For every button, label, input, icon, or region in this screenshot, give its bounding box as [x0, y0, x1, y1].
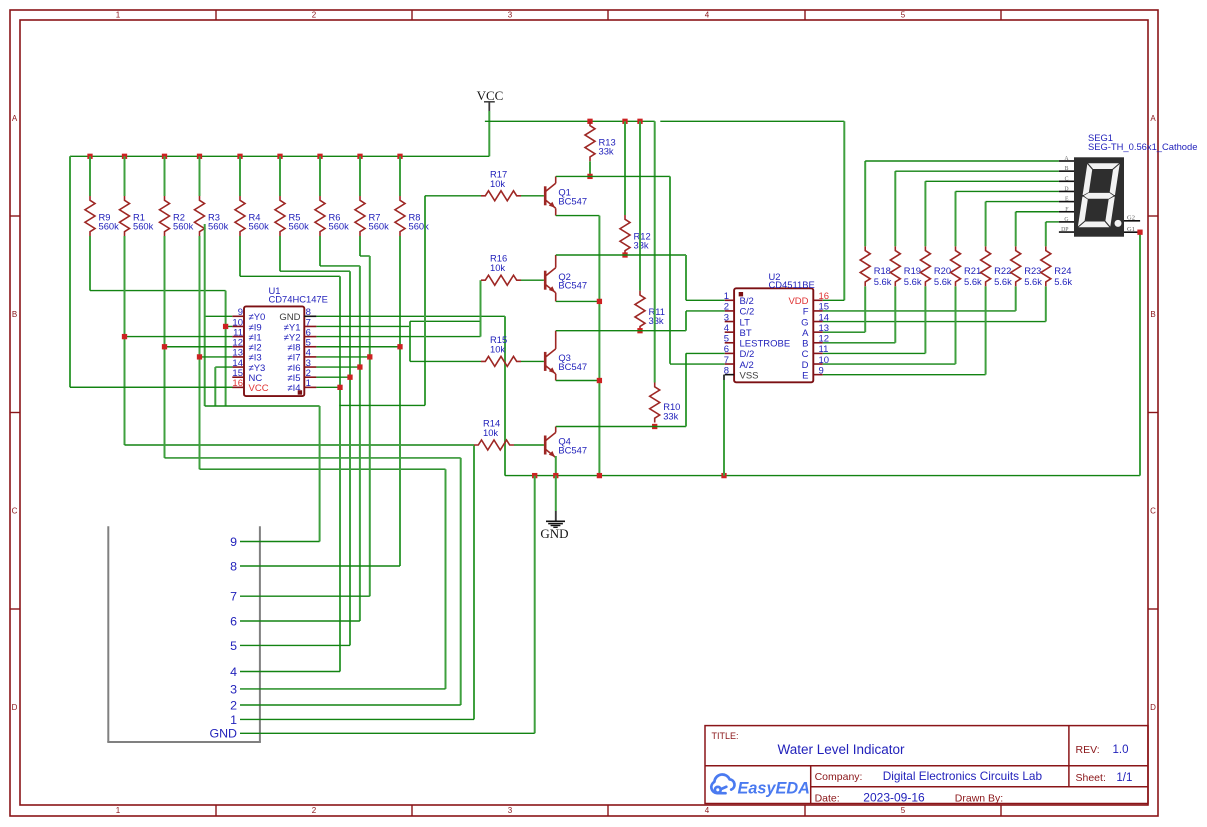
- svg-text:1: 1: [116, 11, 121, 20]
- svg-text:C: C: [1150, 507, 1156, 516]
- svg-text:560k: 560k: [329, 220, 350, 231]
- svg-text:F: F: [803, 307, 809, 318]
- svg-text:A/2: A/2: [740, 360, 754, 371]
- svg-text:560k: 560k: [133, 220, 154, 231]
- svg-text:D: D: [802, 360, 809, 371]
- svg-text:B: B: [1065, 166, 1069, 172]
- svg-text:VSS: VSS: [740, 370, 759, 381]
- svg-text:5.6k: 5.6k: [964, 276, 982, 287]
- svg-text:VDD: VDD: [788, 296, 808, 307]
- svg-text:D/2: D/2: [740, 349, 755, 360]
- svg-text:Water Level Indicator: Water Level Indicator: [777, 742, 905, 757]
- svg-text:C: C: [1065, 176, 1069, 182]
- svg-text:SEG-TH_0.56x1_Cathode: SEG-TH_0.56x1_Cathode: [1088, 141, 1197, 152]
- svg-text:BC547: BC547: [558, 445, 587, 456]
- svg-text:E: E: [802, 370, 808, 381]
- svg-text:GND: GND: [209, 727, 237, 741]
- svg-text:A: A: [12, 114, 18, 123]
- svg-text:R21: R21: [964, 265, 981, 276]
- svg-text:CD4511BE: CD4511BE: [769, 279, 815, 290]
- svg-text:DP: DP: [1061, 227, 1068, 233]
- svg-text:VCC: VCC: [249, 383, 269, 394]
- svg-text:33k: 33k: [599, 146, 614, 157]
- svg-text:3: 3: [724, 312, 729, 323]
- svg-text:5: 5: [230, 639, 237, 653]
- svg-text:560k: 560k: [409, 220, 430, 231]
- svg-text:10k: 10k: [490, 343, 505, 354]
- svg-text:C: C: [12, 507, 18, 516]
- svg-text:Sheet:: Sheet:: [1076, 772, 1106, 784]
- svg-text:4: 4: [230, 665, 237, 679]
- svg-text:5.6k: 5.6k: [874, 276, 892, 287]
- svg-text:Digital Electronics Circuits L: Digital Electronics Circuits Lab: [883, 769, 1043, 783]
- svg-text:1: 1: [306, 378, 311, 389]
- svg-text:EasyEDA: EasyEDA: [738, 779, 810, 797]
- svg-text:10k: 10k: [490, 178, 505, 189]
- svg-text:2023-09-16: 2023-09-16: [863, 791, 925, 805]
- svg-text:10k: 10k: [483, 427, 498, 438]
- svg-text:G: G: [1064, 217, 1068, 223]
- svg-text:D: D: [1150, 703, 1156, 712]
- svg-text:3: 3: [508, 806, 513, 815]
- svg-text:R24: R24: [1054, 265, 1071, 276]
- svg-text:1: 1: [116, 806, 121, 815]
- svg-text:BT: BT: [740, 328, 752, 339]
- svg-text:5: 5: [901, 806, 906, 815]
- svg-text:B/2: B/2: [740, 296, 754, 307]
- svg-text:C/2: C/2: [740, 307, 755, 318]
- svg-text:33k: 33k: [634, 239, 649, 250]
- svg-text:3: 3: [508, 11, 513, 20]
- svg-text:4: 4: [705, 11, 710, 20]
- svg-text:5.6k: 5.6k: [1054, 276, 1072, 287]
- svg-text:R19: R19: [904, 265, 921, 276]
- svg-text:560k: 560k: [99, 220, 120, 231]
- svg-text:E: E: [1065, 197, 1069, 203]
- svg-text:5.6k: 5.6k: [994, 276, 1012, 287]
- svg-text:560k: 560k: [208, 220, 229, 231]
- svg-text:R23: R23: [1024, 265, 1041, 276]
- svg-text:560k: 560k: [369, 220, 390, 231]
- svg-text:Drawn By:: Drawn By:: [955, 793, 1003, 805]
- svg-text:G2: G2: [1127, 215, 1135, 222]
- svg-text:B: B: [1150, 310, 1155, 319]
- svg-text:B: B: [802, 339, 808, 350]
- svg-text:TITLE:: TITLE:: [712, 731, 739, 741]
- svg-text:5: 5: [901, 11, 906, 20]
- svg-text:33k: 33k: [649, 315, 664, 326]
- svg-text:C: C: [802, 349, 809, 360]
- svg-text:560k: 560k: [249, 220, 270, 231]
- svg-text:Date:: Date:: [815, 793, 840, 805]
- svg-text:Company:: Company:: [815, 771, 863, 783]
- svg-text:R20: R20: [934, 265, 951, 276]
- svg-text:7: 7: [230, 590, 237, 604]
- svg-text:1: 1: [230, 713, 237, 727]
- svg-text:560k: 560k: [173, 220, 194, 231]
- svg-text:LESTROBE: LESTROBE: [740, 339, 791, 350]
- svg-text:1/1: 1/1: [1116, 772, 1132, 784]
- svg-text:B: B: [12, 310, 17, 319]
- svg-text:6: 6: [230, 614, 237, 628]
- svg-text:R22: R22: [994, 265, 1011, 276]
- svg-text:2: 2: [312, 806, 317, 815]
- svg-text:BC547: BC547: [558, 195, 587, 206]
- svg-text:16: 16: [232, 378, 243, 389]
- svg-text:9: 9: [230, 535, 237, 549]
- svg-text:D: D: [12, 703, 18, 712]
- svg-text:4: 4: [705, 806, 710, 815]
- svg-text:5: 5: [724, 334, 729, 345]
- svg-text:5.6k: 5.6k: [934, 276, 952, 287]
- svg-text:5.6k: 5.6k: [1024, 276, 1042, 287]
- svg-text:8: 8: [230, 559, 237, 573]
- svg-text:560k: 560k: [289, 220, 310, 231]
- svg-text:5.6k: 5.6k: [904, 276, 922, 287]
- svg-text:2: 2: [230, 698, 237, 712]
- svg-text:1.0: 1.0: [1113, 744, 1129, 756]
- svg-text:A: A: [802, 328, 809, 339]
- svg-text:3: 3: [230, 682, 237, 696]
- svg-text:CD74HC147E: CD74HC147E: [269, 294, 328, 305]
- svg-text:G1: G1: [1127, 226, 1135, 233]
- svg-text:GND: GND: [540, 526, 568, 541]
- svg-text:G: G: [801, 317, 808, 328]
- svg-text:33k: 33k: [663, 411, 678, 422]
- svg-text:VCC: VCC: [477, 88, 504, 103]
- svg-text:D: D: [1064, 186, 1068, 192]
- svg-text:R18: R18: [874, 265, 891, 276]
- svg-text:10k: 10k: [490, 262, 505, 273]
- svg-text:BC547: BC547: [558, 280, 587, 291]
- svg-text:LT: LT: [740, 317, 751, 328]
- svg-text:A: A: [1150, 114, 1156, 123]
- svg-text:BC547: BC547: [558, 361, 587, 372]
- svg-text:REV:: REV:: [1076, 744, 1100, 756]
- svg-text:2: 2: [312, 11, 317, 20]
- svg-text:4: 4: [724, 323, 729, 334]
